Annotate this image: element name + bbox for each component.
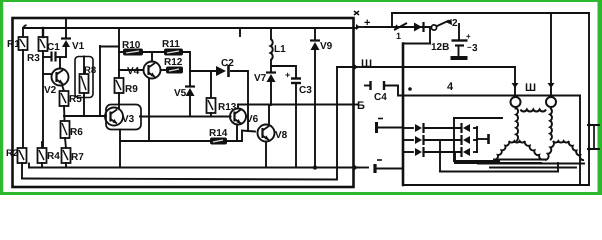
wire R3 column down (42, 28, 44, 148)
resistor R13 (207, 98, 237, 113)
wire R4 to ground rail (41, 163, 43, 168)
wire stator bottom line (490, 167, 576, 169)
svg-text:R7: R7 (71, 152, 84, 163)
brush terminal right (546, 83, 556, 107)
svg-text:R4: R4 (47, 151, 60, 162)
wire Sh to generator (363, 66, 515, 68)
svg-text:C4: C4 (374, 92, 387, 103)
svg-text:12В: 12В (431, 42, 449, 53)
svg-text:R3: R3 (27, 53, 40, 64)
svg-text:Б: Б (357, 100, 365, 112)
field winding between brushes (516, 107, 552, 111)
wire R6-R7 link (65, 138, 66, 148)
wire V2 base (43, 73, 51, 75)
svg-text:4: 4 (447, 81, 454, 93)
wire V8 emitter (265, 142, 267, 168)
wire column x100 (100, 46, 119, 116)
wire V9 column (314, 29, 316, 168)
wire riser to top rail (391, 13, 393, 27)
transistor V8 (258, 125, 288, 142)
stator winding phase 2 (545, 141, 584, 160)
wire V4 base (119, 69, 144, 71)
wire R11 to corner (183, 52, 190, 71)
series diode (414, 22, 424, 32)
svg-text:V9: V9 (320, 41, 333, 52)
wire y44 link (403, 43, 430, 45)
svg-text:R6: R6 (70, 127, 83, 138)
wire switch2 to battery (458, 24, 460, 39)
wire terminal connector right edge (593, 125, 595, 149)
svg-text:V8: V8 (275, 130, 288, 141)
wire tap drop x580 (579, 96, 581, 186)
svg-text:V4: V4 (127, 66, 140, 77)
label 12V (431, 42, 449, 53)
capacitor C4 (365, 81, 403, 103)
resistor R7 (62, 148, 85, 163)
svg-text:R5: R5 (69, 94, 82, 105)
svg-text:V1: V1 (72, 41, 85, 52)
svg-text:R9: R9 (125, 84, 138, 95)
wire node row to V6 (105, 115, 231, 118)
wire R9 column (118, 28, 120, 70)
svg-text:V5: V5 (174, 88, 187, 99)
junction dot bus4 (408, 87, 412, 91)
wire R1 top lead (22, 28, 24, 37)
wire Sh drop to brush (514, 67, 516, 87)
output terminal upper right (587, 122, 600, 128)
wire stub x240 (239, 28, 241, 36)
wire left edge of generator box (402, 44, 405, 186)
label Sh rotor (525, 82, 536, 94)
resistor R12 (161, 57, 184, 73)
wire supply rail y28 (23, 25, 355, 28)
stator winding phase 1 (494, 141, 544, 160)
wire V3 down lead (119, 130, 121, 168)
wire R5-R6 link (63, 106, 66, 121)
wire stator baseline 1 (494, 159, 545, 161)
wire V8 collector (268, 105, 270, 125)
wire plus to switch (365, 26, 430, 28)
wire L1 to V7 (270, 60, 272, 72)
diode V1 (61, 39, 85, 53)
chassis terminal mid (377, 119, 404, 134)
diode D1 right (462, 123, 471, 133)
diode D3 left (415, 147, 424, 157)
diode V7 (254, 73, 276, 85)
svg-text:R8: R8 (84, 65, 96, 76)
resistor R8 (80, 57, 97, 94)
diode D1 left (415, 123, 424, 133)
corner mark (354, 11, 359, 15)
wire x248 column (247, 71, 249, 131)
wire V2 collector (59, 57, 61, 69)
svg-text:V7: V7 (254, 73, 267, 84)
wire R14 to V8 base (227, 131, 255, 142)
resistor R6 (61, 121, 84, 138)
wire generator box bottom (403, 184, 589, 186)
brush terminal left (511, 83, 521, 107)
wire generator box right edge (588, 13, 590, 185)
rectifier output bar (477, 134, 489, 144)
wire R9 to V3 (118, 93, 120, 108)
wire Sh column x337 (336, 67, 338, 180)
output terminal lower right (587, 146, 600, 152)
transistor V4 (127, 62, 161, 79)
wire rectifier drop x440 (439, 140, 441, 171)
wire V2 emitter (62, 85, 64, 91)
wire top rail y13 (392, 12, 589, 14)
ground rail A y167 (29, 164, 356, 168)
switch 1 (394, 23, 407, 41)
switch 2 (431, 18, 458, 30)
resistor R3 (27, 37, 48, 64)
wire V4 emitter (148, 79, 150, 142)
wire V5 column (189, 71, 191, 116)
wire Sh exit (337, 66, 354, 68)
wire C2 row (190, 70, 247, 72)
wire rectifier drop x455 (455, 152, 541, 163)
svg-text:R1: R1 (7, 39, 20, 50)
wire stator bottom bus (440, 163, 558, 172)
diode row3 wire (403, 151, 477, 153)
terminal plus (356, 17, 370, 30)
transistor V3 (105, 108, 135, 126)
svg-text:C1: C1 (47, 42, 60, 53)
svg-text:V2: V2 (44, 85, 57, 96)
resistor R5 (60, 91, 83, 106)
wire V1 column (65, 18, 67, 57)
svg-text:+: + (285, 70, 290, 80)
lower rail B y179 (22, 179, 336, 180)
svg-text:R11: R11 (162, 39, 180, 50)
rectifier inner box (454, 118, 502, 161)
terminal Sh (354, 58, 372, 70)
junction dot rail A x315 (313, 165, 317, 169)
svg-text:R12: R12 (164, 57, 183, 68)
wire V7 to collector bus (270, 82, 272, 105)
svg-text:C3: C3 (299, 85, 312, 96)
svg-text:Ш: Ш (525, 82, 536, 94)
svg-text:V3: V3 (122, 114, 135, 125)
wire C3 branch (271, 66, 296, 78)
svg-text:R2: R2 (6, 148, 18, 159)
resistor R14 (209, 128, 228, 144)
diode row2 wire (403, 139, 477, 141)
capacitor C1 (43, 42, 66, 61)
wire bus 4 row (403, 81, 580, 95)
diode V9 (310, 41, 333, 53)
transistor V2 (44, 69, 69, 97)
resistor R11 (162, 39, 183, 55)
rounded enclosure around R8 (75, 57, 93, 98)
stator winding riser 2 (550, 108, 552, 140)
resistor R2 (6, 148, 27, 163)
diode row1 wire (403, 127, 477, 129)
wire R10-R11 link (143, 51, 164, 53)
resistor R4 (38, 142, 61, 163)
chassis terminal low (375, 160, 403, 173)
wire corner down x430 (429, 27, 431, 44)
transistor V6 (230, 109, 259, 126)
inductor L1 (271, 39, 287, 60)
stator winding riser 1 (516, 108, 518, 141)
diode D3 right (462, 147, 471, 157)
wire R14 row (120, 140, 210, 142)
wire collector bus y105 (238, 104, 354, 106)
wire diode to corner (423, 26, 430, 28)
wire C3 to ground rail (295, 83, 297, 168)
svg-text:R13: R13 (218, 102, 237, 113)
diode D2 left (415, 135, 424, 145)
regulator unit box outline (13, 18, 354, 187)
wire R8 bottom to node row (83, 93, 85, 116)
wire R13 column (210, 71, 212, 98)
svg-text:R10: R10 (122, 40, 141, 51)
wire R2 to lower rail (21, 163, 23, 179)
wire V6 collector (237, 105, 239, 109)
wire rectifier right bus (476, 127, 478, 152)
svg-text:C2: C2 (221, 58, 234, 69)
capacitor C3 (285, 70, 312, 96)
resistor R1 (7, 37, 28, 50)
svg-text:Ш: Ш (361, 58, 372, 70)
svg-text:2: 2 (452, 18, 458, 29)
diode V5 (174, 87, 195, 100)
wire R1 bottom long column (22, 50, 24, 148)
wire R7 to ground rail (65, 163, 67, 168)
svg-text:L1: L1 (274, 44, 286, 55)
wire field riser right (550, 13, 552, 97)
resistor R9 (115, 70, 139, 95)
wire stator baseline 2 (478, 163, 584, 165)
wire V4 collector (151, 52, 153, 62)
svg-text:+: + (466, 32, 471, 41)
wire L1 stub (270, 28, 272, 39)
wire V6 emitter (236, 125, 238, 142)
capacitor C2 (216, 58, 234, 77)
diode D2 right (462, 135, 471, 145)
resistor R10 (122, 40, 143, 55)
svg-text:1: 1 (396, 31, 401, 41)
battery 3 (451, 32, 479, 58)
svg-text:R14: R14 (209, 128, 228, 139)
svg-text:3: 3 (472, 43, 478, 54)
terminal B (354, 100, 365, 112)
terminal minus (354, 165, 368, 171)
rounded enclosure around V3 (106, 105, 141, 130)
wire R13 to node row (210, 113, 212, 116)
wire R10 feed (119, 51, 123, 53)
wire node row y116 (64, 115, 105, 117)
